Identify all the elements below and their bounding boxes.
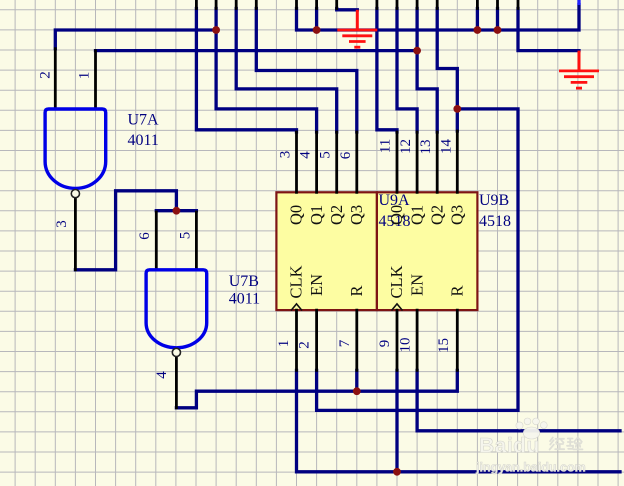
svg-text:9: 9 (377, 340, 393, 348)
svg-text:jingyan.baidu.com: jingyan.baidu.com (475, 461, 586, 475)
svg-text:EN: EN (407, 274, 426, 296)
svg-text:R: R (347, 285, 366, 296)
svg-text:4011: 4011 (128, 132, 159, 149)
svg-text:U7A: U7A (128, 112, 160, 129)
svg-text:12: 12 (398, 139, 414, 154)
svg-text:Q2: Q2 (327, 205, 346, 225)
svg-text:15: 15 (436, 338, 452, 353)
svg-text:1: 1 (77, 72, 93, 80)
svg-text:3: 3 (278, 151, 294, 159)
svg-text:Q0: Q0 (287, 205, 306, 225)
svg-text:2: 2 (38, 71, 54, 79)
svg-text:10: 10 (398, 338, 414, 353)
svg-text:Q0: Q0 (387, 205, 406, 225)
svg-text:Q1: Q1 (407, 205, 426, 225)
svg-text:Q1: Q1 (307, 205, 326, 225)
svg-text:2: 2 (297, 341, 313, 349)
svg-text:5: 5 (178, 232, 194, 240)
svg-text:7: 7 (337, 339, 353, 347)
svg-text:4011: 4011 (229, 291, 260, 308)
svg-text:Q3: Q3 (347, 205, 366, 225)
svg-text:CLK: CLK (387, 265, 406, 298)
svg-text:5: 5 (318, 151, 334, 159)
svg-text:1: 1 (276, 340, 292, 348)
svg-text:13: 13 (418, 140, 434, 155)
svg-text:4518: 4518 (479, 213, 511, 230)
svg-text:CLK: CLK (287, 265, 306, 298)
svg-text:Q3: Q3 (448, 205, 467, 225)
svg-text:Q2: Q2 (427, 205, 446, 225)
svg-text:R: R (448, 285, 467, 296)
svg-text:11: 11 (378, 139, 394, 153)
svg-text:4: 4 (154, 371, 170, 379)
svg-text:4: 4 (298, 151, 314, 159)
svg-text:3: 3 (54, 220, 70, 228)
svg-text:U7B: U7B (229, 273, 259, 290)
svg-text:6: 6 (338, 151, 354, 159)
svg-text:U9B: U9B (479, 192, 509, 209)
svg-text:6: 6 (137, 232, 153, 240)
svg-text:EN: EN (307, 274, 326, 296)
svg-text:14: 14 (439, 139, 455, 155)
